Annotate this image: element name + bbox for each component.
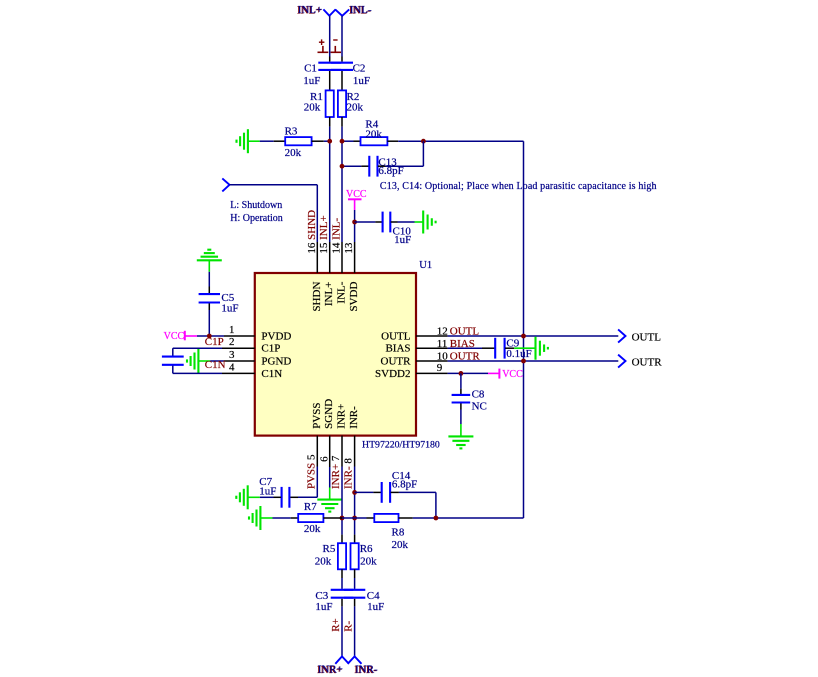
svg-text:20k: 20k: [315, 556, 332, 568]
capacitor C13 6.8pF: [368, 156, 370, 177]
svg-text:R+: R+: [330, 618, 342, 632]
svg-text:INL-: INL-: [350, 4, 372, 16]
svg-text:INL+: INL+: [323, 282, 335, 307]
pin 15 stub: [329, 242, 331, 273]
svg-text:1uF: 1uF: [353, 75, 370, 87]
junction INR+ node: [340, 516, 345, 521]
wire R5 to C3: [341, 569, 343, 578]
junction INR-/C14: [352, 490, 357, 495]
svg-text:OUTR: OUTR: [381, 356, 412, 368]
polarity mark - for C2: [333, 39, 337, 41]
svg-text:R-: R-: [342, 620, 354, 631]
svg-text:15 INL+: 15 INL+: [318, 215, 330, 253]
svg-text:4: 4: [229, 361, 235, 373]
svg-text:1uF: 1uF: [259, 486, 276, 498]
svg-text:PGND: PGND: [261, 355, 291, 367]
svg-text:2: 2: [229, 336, 235, 348]
svg-text:20k: 20k: [360, 556, 377, 568]
svg-text:R6: R6: [360, 543, 373, 555]
junction SVDD node: [352, 220, 357, 225]
resistor R5: [338, 543, 346, 569]
wire pin 8 down to R6: [354, 467, 356, 535]
wire pin 9 to VCC and C8: [448, 372, 488, 374]
port OUTL: [618, 329, 625, 342]
wire flying cap to pin 4: [173, 372, 222, 374]
junction OUTL/right vertical: [521, 334, 526, 339]
capacitor C1 1uF: [318, 62, 341, 64]
wire C2 to R2: [341, 71, 343, 90]
wire OUTR to port: [448, 360, 619, 362]
svg-text:1: 1: [229, 324, 235, 336]
svg-text:6.8pF: 6.8pF: [378, 165, 403, 177]
pin 13 stub: [354, 242, 356, 273]
wire R6 to C4: [354, 569, 356, 578]
ground at R3: [247, 129, 249, 153]
resistor R3: [285, 137, 311, 145]
wire SVDD node to C10: [355, 221, 376, 223]
svg-text:OUTR: OUTR: [632, 356, 663, 368]
svg-text:H: Operation: H: Operation: [230, 213, 282, 224]
pin 10 stub: [416, 360, 448, 362]
junction node INL+/R3: [327, 139, 332, 144]
svg-text:INR+: INR+: [318, 664, 343, 676]
port OUTR: [618, 355, 625, 368]
svg-text:VCC: VCC: [164, 331, 185, 342]
wire pin 7 down to R5: [341, 467, 343, 535]
wire R3 to node INL+: [312, 140, 324, 142]
wire SHDN to pin 16: [230, 184, 318, 186]
wire C7 to ground: [274, 496, 282, 498]
svg-text:PVSS: PVSS: [311, 403, 323, 429]
capacitor C9 0.1uF: [494, 338, 496, 359]
wire OUTL to port: [448, 335, 619, 337]
svg-text:OUTL: OUTL: [632, 331, 662, 343]
svg-text:11: 11: [437, 338, 448, 350]
svg-text:16 SHND: 16 SHND: [306, 210, 318, 254]
wire C13 to output node: [378, 165, 386, 167]
wire right vertical feedback bus: [523, 141, 525, 518]
svg-text:OUTL: OUTL: [381, 330, 411, 342]
svg-text:C8: C8: [472, 388, 485, 400]
wire R1 to node INL+: [329, 117, 331, 127]
svg-text:C1P: C1P: [261, 343, 280, 355]
wire VCC to pin 13: [354, 210, 356, 242]
resistor R2: [338, 90, 346, 117]
svg-text:3: 3: [229, 349, 235, 361]
ground at C10: [422, 211, 424, 234]
port INR-: [348, 656, 362, 663]
capacitor C8 NC: [460, 373, 462, 388]
svg-text:9: 9: [437, 362, 443, 374]
svg-text:INR- 8: INR- 8: [343, 458, 355, 489]
svg-text:INR+ 7: INR+ 7: [330, 455, 342, 489]
svg-text:20k: 20k: [365, 129, 382, 141]
svg-text:0.1uF: 0.1uF: [506, 348, 531, 360]
svg-text:20k: 20k: [347, 101, 364, 113]
wire R2 to node INL-: [341, 117, 343, 127]
polarity mark + for C1: [319, 41, 325, 43]
capacitor C5 1uF: [199, 293, 220, 295]
ground at C8: [448, 435, 473, 437]
svg-text:20k: 20k: [392, 539, 409, 551]
wire INR+ node to INR- node: [342, 517, 355, 519]
junction R4/C13 output node: [421, 139, 426, 144]
svg-text:20k: 20k: [285, 147, 302, 159]
pin 2 stub: [222, 347, 255, 349]
wire INR+ node to R5: [341, 535, 343, 544]
ground at SGND: [317, 499, 342, 501]
wire INL- vertical from port to C2: [341, 16, 343, 57]
wire INL+ vertical from port to C1: [329, 16, 331, 57]
junction SVDD2 node: [459, 371, 464, 376]
ground above C5 (inverted): [197, 259, 222, 261]
wire C5 to PVDD node: [208, 303, 210, 310]
wire R4 to right vertical: [387, 140, 398, 142]
svg-text:NC: NC: [472, 400, 487, 412]
capacitor C3 1uF: [331, 589, 354, 591]
wire R7 to INR+ node: [323, 517, 342, 519]
svg-text:10: 10: [437, 351, 449, 363]
pin 6 stub: [329, 436, 331, 467]
svg-text:12: 12: [437, 326, 448, 338]
wire C3 to INR+ port: [341, 599, 343, 607]
svg-text:INR-: INR-: [348, 406, 360, 429]
pin 3 stub: [224, 360, 255, 362]
svg-text:R8: R8: [392, 526, 405, 538]
svg-text:R5: R5: [323, 543, 336, 555]
svg-text:1uF: 1uF: [394, 234, 411, 246]
wire pin 6 to ground: [329, 467, 331, 488]
flying capacitor between C1P and C1N: [172, 348, 174, 356]
wire C10 to ground: [391, 221, 398, 223]
svg-text:1uF: 1uF: [367, 601, 384, 613]
svg-text:6: 6: [319, 456, 331, 462]
svg-text:C1: C1: [304, 62, 317, 74]
wire INR- node to C14: [355, 491, 374, 493]
svg-text:C1P: C1P: [205, 336, 224, 348]
svg-text:INL-: INL-: [336, 281, 348, 303]
op-amp IC U1 HT97220/HT97180: [255, 273, 416, 436]
pin 8 stub: [354, 436, 356, 467]
svg-text:14 INL-: 14 INL-: [331, 218, 343, 254]
svg-text:20k: 20k: [304, 101, 321, 113]
ground at C9: [534, 337, 536, 360]
wire pin 5 to C7: [316, 467, 318, 498]
pin 11 stub: [416, 347, 448, 349]
svg-text:C1N: C1N: [261, 368, 282, 380]
junction PVDD node: [207, 334, 212, 339]
svg-text:HT97220/HT97180: HT97220/HT97180: [362, 440, 440, 451]
svg-text:C2: C2: [353, 62, 366, 74]
svg-text:1uF: 1uF: [303, 75, 320, 87]
wire INR- node to R6: [354, 535, 356, 544]
polarity bracket for C1: [322, 46, 324, 52]
junction R8/C14 output node: [434, 516, 439, 521]
wire R8 to right vertical: [399, 517, 413, 519]
svg-text:SGND: SGND: [323, 399, 335, 429]
power port VCC at SVDD: [348, 198, 362, 200]
resistor R7: [298, 514, 323, 522]
capacitor C14 6.8pF: [381, 482, 383, 503]
capacitor C4 1uF: [344, 589, 365, 591]
svg-text:INL+: INL+: [298, 4, 323, 16]
wire ground to R3: [260, 140, 274, 142]
pin 4 stub: [222, 372, 255, 374]
svg-text:SVDD2: SVDD2: [375, 368, 410, 380]
wire ground to C5: [208, 272, 210, 287]
wire C1 to R1: [329, 71, 331, 90]
svg-text:INR-: INR-: [355, 664, 378, 676]
svg-text:SHDN: SHDN: [311, 282, 323, 312]
svg-text:C1N: C1N: [205, 359, 226, 371]
svg-text:20k: 20k: [304, 523, 321, 535]
wire C14 to R8 output node: [391, 491, 399, 493]
port INR+: [335, 656, 349, 663]
polarity bracket for C2: [334, 46, 336, 52]
svg-text:VCC: VCC: [502, 369, 523, 380]
ground at PGND (left): [197, 349, 199, 373]
capacitor C2 1uF: [331, 62, 353, 64]
wire BIAS to C9: [448, 347, 482, 349]
pin 12 stub: [416, 335, 448, 337]
port INL+: [323, 9, 335, 15]
svg-text:1uF: 1uF: [315, 601, 332, 613]
resistor R1: [326, 90, 334, 117]
pin 9 stub: [416, 372, 448, 374]
ground at C7: [247, 485, 249, 509]
wire pin 2 to flying cap: [173, 347, 222, 349]
wire C4 to INR- port: [354, 599, 356, 607]
svg-text:PVDD: PVDD: [261, 330, 291, 342]
pin 16 stub: [316, 242, 318, 273]
wire INR- node to R8: [355, 517, 367, 519]
pin 5 stub: [316, 436, 318, 467]
svg-text:13: 13: [343, 242, 355, 254]
wire node INL- to R4: [342, 140, 354, 142]
junction INR- node: [352, 516, 357, 521]
resistor R6: [351, 543, 359, 569]
junction C13 on INL- wire: [340, 164, 345, 169]
svg-text:6.8pF: 6.8pF: [392, 479, 417, 491]
pin 14 stub: [341, 242, 343, 273]
ground at R7: [259, 506, 261, 530]
pin 1 stub: [224, 335, 255, 337]
svg-text:R7: R7: [304, 501, 317, 513]
port SHDN control input: [222, 178, 229, 191]
junction OUTR/right vertical: [521, 359, 526, 364]
wire ground to pin 3: [210, 360, 224, 362]
wire node INL- to C13: [342, 165, 361, 167]
port INL-: [335, 9, 349, 15]
capacitor C7 1uF: [281, 487, 283, 508]
junction node INL-/R4: [340, 139, 345, 144]
resistor R4: [361, 137, 388, 145]
svg-text:VCC: VCC: [346, 189, 367, 200]
capacitor C10 1uF: [382, 212, 384, 233]
svg-text:L: Shutdown: L: Shutdown: [230, 200, 282, 211]
svg-text:INR+: INR+: [336, 404, 348, 429]
wire C8 to ground: [460, 403, 462, 409]
wire ground to R7: [273, 517, 291, 519]
svg-text:BIAS: BIAS: [385, 343, 410, 355]
svg-text:R3: R3: [285, 125, 298, 137]
svg-text:SVDD: SVDD: [348, 282, 360, 312]
svg-text:C13, C14: Optional; Place when: C13, C14: Optional; Place when Load para…: [380, 181, 657, 192]
wire C9 to ground: [505, 347, 514, 349]
svg-text:U1: U1: [419, 260, 432, 271]
resistor R8: [374, 514, 398, 522]
wire VCC to pin 1: [197, 335, 224, 337]
pin 7 stub: [341, 436, 343, 467]
svg-text:PVSS 5: PVSS 5: [305, 454, 317, 489]
svg-text:1uF: 1uF: [221, 303, 238, 315]
power port VCC at SVDD2: [488, 372, 499, 374]
